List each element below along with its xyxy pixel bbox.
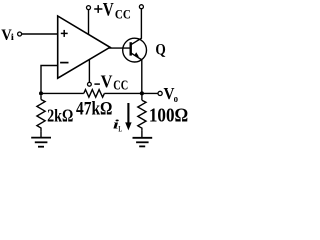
svg-text:CC: CC [113, 78, 128, 93]
svg-text:L: L [118, 125, 122, 134]
label iL [113, 117, 122, 134]
op-amp - input marking [60, 62, 68, 64]
op-amp + input marking [61, 30, 68, 37]
wire op-amp output to transistor base [109, 47, 131, 49]
wire -Vcc supply line [88, 59, 90, 82]
wire Vi to op-amp + input [22, 33, 58, 35]
node collector terminal [139, 5, 143, 9]
wire bottom horizontal right segment to Vo [104, 92, 158, 94]
wire emitter down to output node [141, 59, 143, 94]
ground left [31, 138, 51, 147]
resistor 47k zigzag [84, 90, 105, 98]
transistor Q1 base bar [129, 42, 131, 55]
transistor Q1 collector [131, 9, 142, 45]
current arrow iL [125, 103, 131, 130]
resistor 100 vertical [138, 95, 146, 137]
op-amp U1 triangle [58, 16, 110, 78]
label Vi [1, 25, 14, 44]
transistor Q1 emitter with arrow [131, 53, 142, 60]
wire +Vcc supply line [88, 10, 90, 35]
wire op-amp - input feedback [41, 66, 58, 94]
transistor Q1 circle [123, 38, 147, 62]
node junction dot left [39, 91, 43, 95]
node +Vcc terminal [87, 6, 91, 10]
svg-text:V: V [101, 72, 113, 92]
svg-text:V: V [103, 0, 114, 20]
label -Vcc [94, 72, 128, 93]
svg-text:100Ω: 100Ω [149, 104, 188, 126]
svg-text:o: o [174, 93, 179, 105]
svg-text:2kΩ: 2kΩ [47, 106, 73, 126]
node -Vcc terminal [88, 82, 92, 86]
wire bottom horizontal left segment [41, 92, 84, 94]
node Vi input terminal [18, 32, 22, 36]
node junction dot right [140, 91, 144, 95]
resistor 2k vertical [37, 95, 45, 137]
label Vo [164, 84, 179, 105]
svg-text:47kΩ: 47kΩ [76, 99, 112, 119]
svg-text:CC: CC [115, 6, 131, 21]
ground right [133, 138, 153, 147]
svg-text:Q: Q [155, 41, 165, 58]
node Vo terminal [158, 91, 162, 95]
label +Vcc [94, 0, 131, 21]
